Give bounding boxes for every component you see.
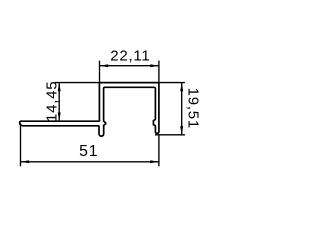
svg-text:51: 51 [79, 143, 98, 160]
svg-text:14,45: 14,45 [44, 81, 61, 122]
dim 19,51 line [181, 83, 183, 135]
arrow 51 left [21, 160, 30, 163]
dim 19,51 bottom extension [155, 134, 185, 136]
arrow 51 right [150, 160, 159, 163]
dim 22,11 line [100, 65, 159, 67]
dim 14,45 top extension [55, 82, 100, 84]
dim 22,11 extension line left [99, 61, 101, 82]
horizontal leg of profile with rounded left tip [20, 121, 100, 126]
svg-text:19,51: 19,51 [185, 88, 202, 129]
dim 51 line [21, 161, 159, 163]
svg-text:22,11: 22,11 [110, 47, 150, 64]
dimension texts [44, 47, 202, 160]
dim 19,51 top extension [159, 82, 185, 84]
dim 22,11 extension line right [158, 61, 160, 82]
arrow 14,45 up [58, 83, 61, 92]
profile cross-section technical drawing [0, 0, 214, 225]
arrow 22,11 left [100, 64, 109, 67]
dim 51 extension right [158, 135, 160, 166]
arrow 22,11 right [150, 64, 159, 67]
arrow 19,51 down [180, 126, 183, 135]
dimension elements [21, 61, 185, 167]
dim 51 extension left [20, 123, 22, 166]
arrowheads [21, 64, 184, 163]
dim 14,45 line [58, 83, 60, 122]
profile outline (sheet contour: top flange, step wall, anchor leg, right leg) [20, 83, 159, 137]
arrow 19,51 up [180, 83, 183, 92]
arrow 14,45 down [58, 113, 61, 122]
